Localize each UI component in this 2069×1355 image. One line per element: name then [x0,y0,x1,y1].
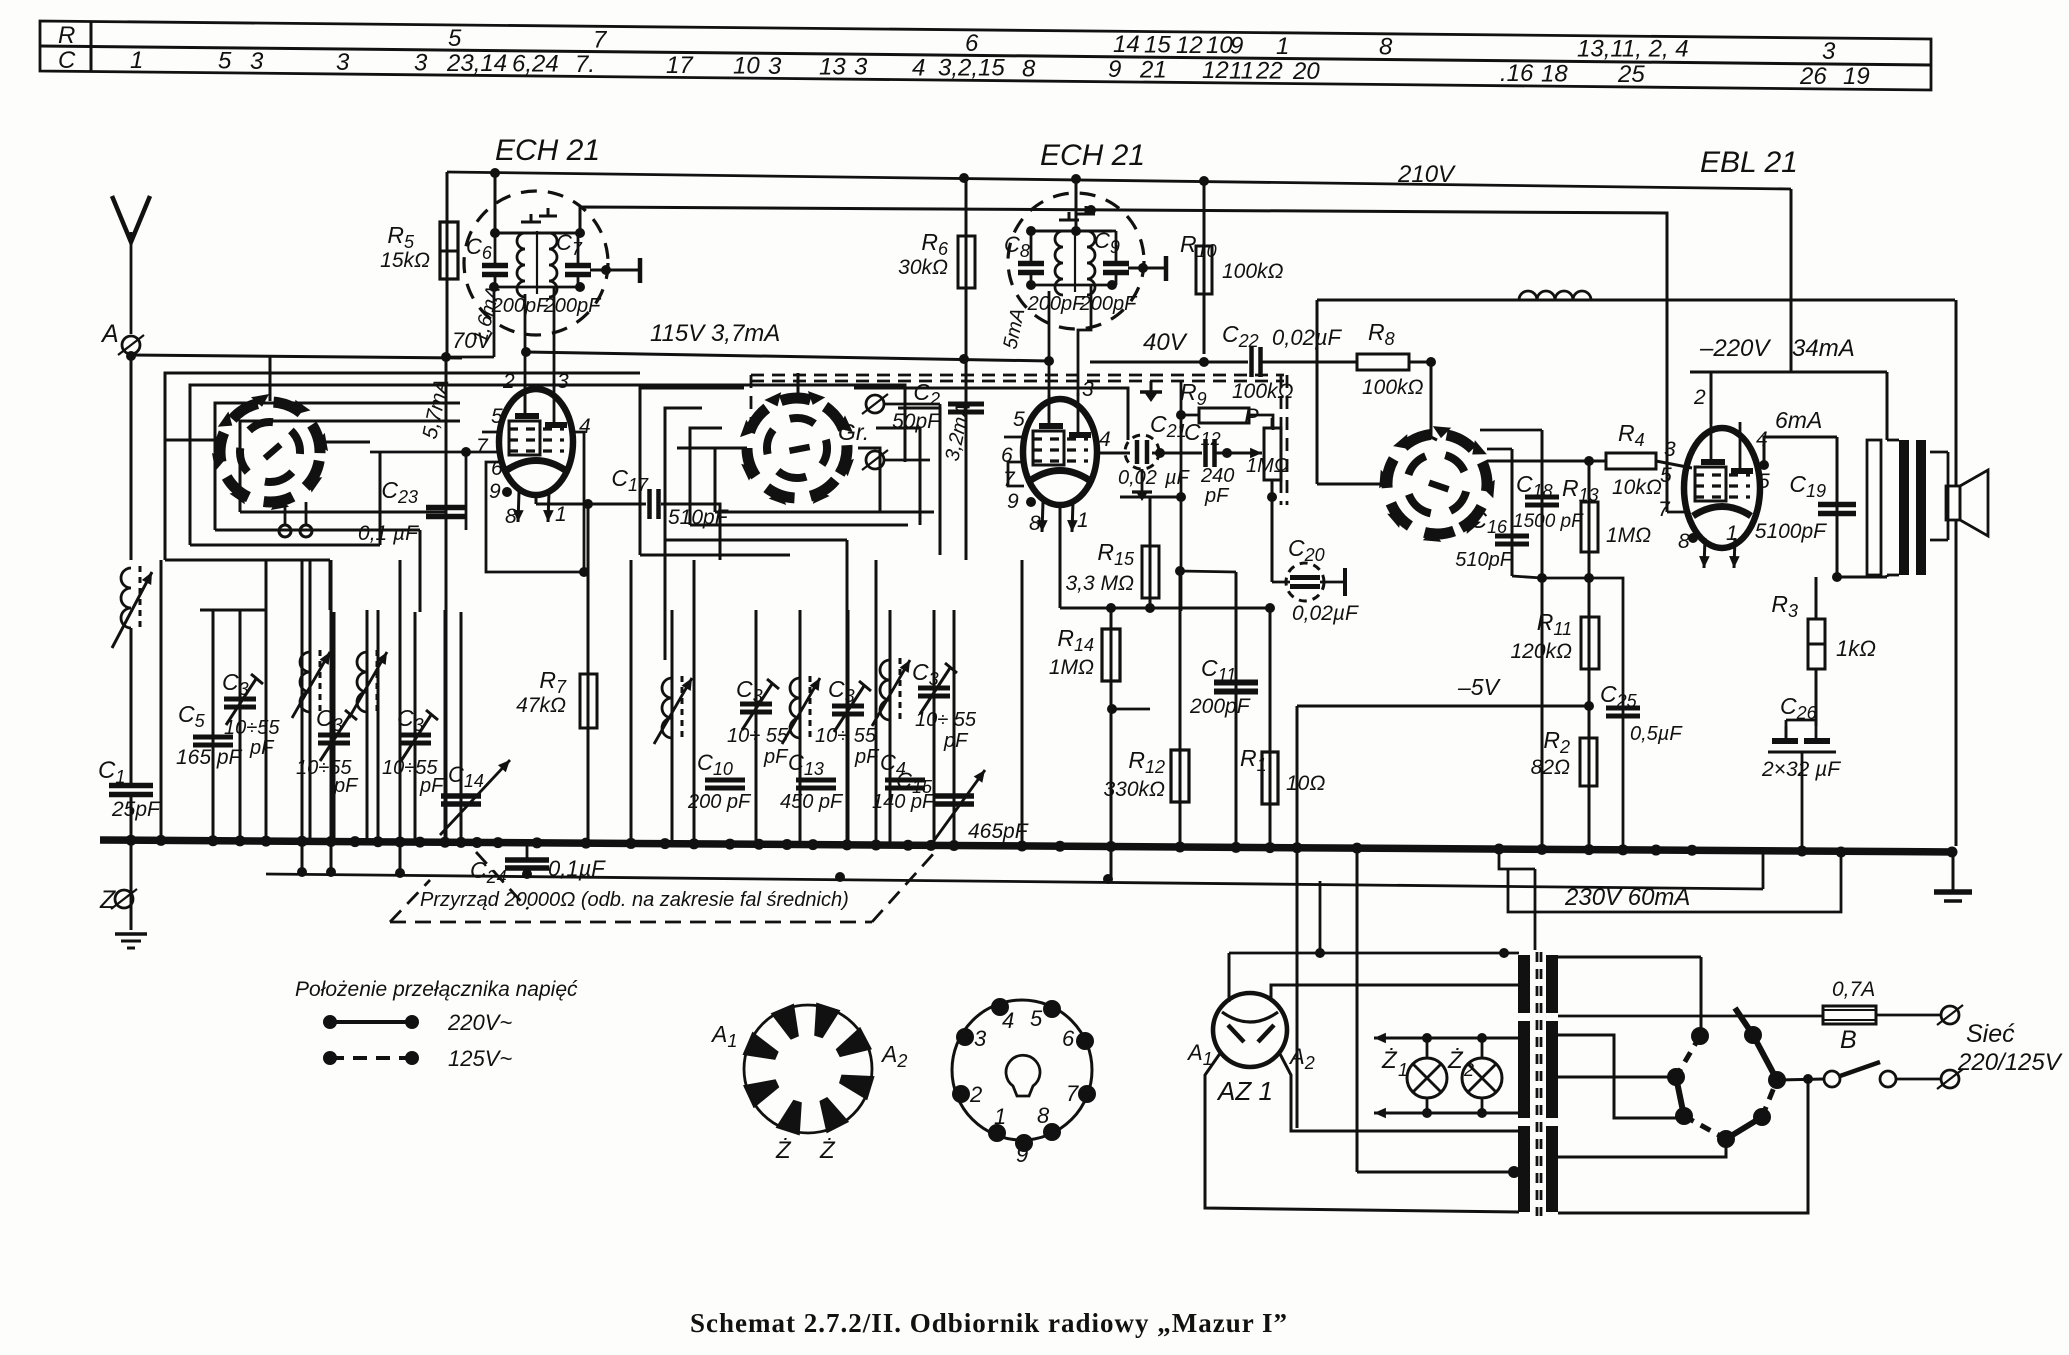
svg-text:1: 1 [1276,33,1289,60]
label R5 value [380,249,430,272]
return line below bus [266,853,1763,889]
capacitor C11 [1214,683,1258,692]
wire 230V [1499,847,1847,951]
AZ1 right lead [1279,1052,1519,1131]
label C10 [687,750,752,813]
table C-row entry 17 [666,52,694,79]
socket key [1006,1055,1040,1096]
svg-text:2: 2 [1693,386,1706,409]
label C26 value [1761,758,1841,781]
label C6 [466,234,493,263]
label C3 e value [815,725,880,768]
svg-text:7: 7 [1003,468,1016,491]
svg-text:6mA: 6mA [1775,407,1822,433]
wire R7 vertical [587,674,590,843]
selector link dashed b [1684,1116,1726,1139]
wire switch1 drop b [379,452,382,545]
table R-row entry 7 [593,26,608,53]
svg-text:125V~: 125V~ [448,1046,512,1071]
variable capacitor C14 [440,612,510,843]
table C-row entry 22 [1255,58,1283,85]
svg-text:510pF: 510pF [1455,549,1513,571]
svg-text:0,02µF: 0,02µF [1292,602,1359,625]
label 230V 60mA [1564,884,1690,911]
label R4 [1618,420,1645,450]
choke coil [1519,291,1591,300]
label C3 d value [727,725,789,768]
label C19 value [1755,520,1827,543]
selector feed 3 [1558,1076,1676,1079]
svg-text:P: P [1244,404,1259,429]
svg-text:1: 1 [555,503,567,526]
wire IF2 to grid [1078,285,1091,396]
wire C2 vertical [965,362,968,560]
svg-text:1: 1 [1726,522,1738,545]
antenna coil L1 [112,566,152,648]
svg-text:1kΩ: 1kΩ [1836,636,1876,661]
label A2 AZ1 [1288,1044,1315,1073]
label Z2 [1447,1047,1474,1080]
svg-text:200 pF: 200 pF [687,791,752,813]
terminal Gr bottom [862,450,930,470]
table R-row entry 12 [1176,32,1203,59]
label C3 c [397,705,424,735]
label C1 [98,757,125,787]
label -5V [1457,674,1502,700]
label B [1840,1026,1857,1054]
wire R15 vertical [1149,497,1152,608]
svg-text:220V~: 220V~ [447,1010,512,1035]
capacitor C13 [796,780,836,788]
return line dots [297,867,1113,884]
label C5 [178,701,206,731]
label C12 value [1200,465,1234,507]
band switch S1a contacts [279,502,312,537]
label R8 value [1362,376,1424,399]
wire C19 vertical [1836,437,1839,577]
svg-text:10÷ 55: 10÷ 55 [727,725,789,747]
svg-text:C: C [58,47,76,74]
wire C25 branch [1589,578,1623,845]
svg-text:10: 10 [733,53,760,80]
tube ECH21 #1 [499,383,573,522]
svg-text:8: 8 [1379,34,1393,61]
svg-text:ECH 21: ECH 21 [1040,139,1145,172]
svg-text:120kΩ: 120kΩ [1510,640,1572,663]
label C3 c value [382,757,445,797]
svg-text:pF: pF [1204,485,1230,507]
table C-row entry 3 [336,49,350,76]
wire IF2 bottom left [1044,291,1054,420]
svg-text:4: 4 [912,54,925,81]
IF1 output lead [590,258,640,283]
selector link solid c [1735,1008,1777,1080]
wire switch1 drop c [419,530,422,612]
label R11 value [1510,640,1572,663]
svg-text:10kΩ: 10kΩ [1612,476,1662,499]
osc wiring loop outer [640,388,1128,555]
wire IF1 bottom left [446,287,525,416]
table C-row entry 7. [575,51,595,78]
svg-text:6,24: 6,24 [512,50,559,77]
table C-row entry 26 [1799,63,1827,90]
wire R10 vertical [1203,181,1206,354]
svg-text:Z: Z [99,886,116,914]
table C-row entry 3 [768,53,782,80]
selector feed 2 [1558,1035,1682,1118]
label C11 [1201,655,1236,685]
table row label R [58,22,75,49]
terminal siec bottom [1937,1069,1963,1089]
rail 115V dots [521,347,969,364]
label C8 value [1027,293,1086,315]
svg-text:Położenie przełącznika napięć: Położenie przełącznika napięć [295,978,578,1001]
annotation underline [390,852,935,922]
svg-text:pF: pF [854,746,880,768]
trimmer C3 b [318,612,357,843]
table R-row entry 15 [1144,32,1171,59]
label C3 f value [915,709,977,752]
tube2 pin labels [1001,378,1111,535]
svg-text:A: A [100,320,119,348]
svg-text:µF: µF [1164,467,1191,489]
svg-text:AZ 1: AZ 1 [1216,1076,1273,1106]
svg-text:3: 3 [1822,38,1836,65]
capacitor C10 [705,780,745,788]
svg-text:100kΩ: 100kΩ [1362,376,1424,399]
table C-row entry .16 [1500,60,1534,87]
osc coil L6 [872,610,910,843]
svg-text:1: 1 [1398,1060,1408,1080]
svg-text:6: 6 [1062,1026,1075,1051]
svg-text:7: 7 [476,435,489,458]
wire tube1 cathode down [536,496,593,674]
junction A node [126,351,136,361]
svg-text:25: 25 [1617,61,1645,88]
table C-row entry 11 [1229,57,1254,84]
wire R8 down to S1c [1430,362,1433,437]
antenna [112,196,150,334]
rail 210V left segment [447,172,1791,189]
label R2 [1543,727,1570,757]
wire R3 top [1816,572,1842,619]
label C17 value [668,506,729,529]
lamp arrows bottom [1374,1108,1519,1119]
svg-text:82Ω: 82Ω [1531,756,1570,779]
ground main [115,934,147,948]
capacitor C20 [1272,563,1345,601]
svg-text:Przyrząd 20000Ω (odb. na zakre: Przyrząd 20000Ω (odb. na zakresie fal śr… [420,889,849,911]
label R8 [1368,319,1395,349]
anode line [1690,372,1887,440]
svg-text:18: 18 [1541,60,1568,87]
svg-text:pF: pF [249,737,275,759]
output transformer [1867,440,1948,575]
svg-text:50pF: 50pF [892,410,941,433]
svg-text:pF: pF [333,775,359,797]
wire heater to transformer [1357,1166,1520,1178]
label fuse [1832,978,1875,1001]
label socket Z a [775,1137,792,1164]
table C-row entry 18 [1541,60,1568,87]
svg-text:200pF: 200pF [1079,293,1138,315]
EBL21 pin4 lead [1759,437,1837,470]
label R10 [1180,231,1217,261]
wire R4 to tube [1656,461,1692,468]
svg-text:3,2,15: 3,2,15 [938,55,1005,82]
rail -5V [1297,705,1589,708]
table R-row entry 10 [1206,32,1233,59]
label C23 [381,477,418,507]
svg-text:7: 7 [593,26,608,53]
band switch S1b [717,368,878,529]
wire v665 [664,540,667,660]
label C15 value [968,820,1029,843]
terminal siec top [1937,1005,1963,1025]
svg-text:1: 1 [1077,509,1089,532]
resistor R9 [1199,408,1249,423]
table R-row entry 6 [965,30,979,57]
label R3 [1771,591,1798,621]
svg-text:30kΩ: 30kΩ [898,256,948,279]
label C2 [913,379,940,409]
label C2 value [892,410,941,433]
junction -5V [1584,701,1594,711]
svg-text:20: 20 [1292,58,1320,85]
svg-text:200pF: 200pF [1189,695,1251,718]
wire R15 top [1120,492,1186,502]
svg-text:pF: pF [943,730,969,752]
label R6 value [898,256,948,279]
label R2 value [1531,756,1570,779]
label R13 [1562,475,1599,505]
resistor R11 [1581,617,1599,669]
svg-text:R: R [58,22,75,49]
svg-text:165 pF: 165 pF [176,746,243,769]
resistor R6 [958,236,975,288]
label ECH 21 second [1040,139,1145,172]
svg-text:0,02µF: 0,02µF [1272,325,1342,350]
table C-row entry 3 [414,50,428,77]
selector link solid b [1726,1117,1762,1139]
band switch wiring loop inner [215,403,460,530]
table C-row entry 10 [733,53,760,80]
label socket A1 [710,1021,737,1051]
label C4 [872,750,936,813]
wire v331 [330,560,333,872]
capacitor C21 [1125,435,1159,469]
capacitor C25 [1606,708,1640,716]
table C-row entry 8 [1022,55,1036,82]
label 70V [452,328,493,353]
table C-row entry 21 [1139,56,1167,83]
wire right rail to ground [1952,850,1955,892]
EBL21 pin7 lead [1667,511,1686,514]
table C-row entry 6,24 [512,50,559,77]
table C-row entry 12 [1202,57,1229,84]
svg-text:34mA: 34mA [1792,335,1855,362]
tube EBL21 [1684,422,1760,568]
svg-text:0,1 µF: 0,1 µF [358,522,419,545]
S1c right lead [1487,456,1594,466]
wire 210V drop [1790,189,1793,372]
label C22 [1222,321,1342,351]
svg-text:pF: pF [763,746,789,768]
label C7 value [543,295,602,317]
tube2 pin5 lead [1004,436,1024,439]
wire R9 right [1249,415,1273,430]
wire switch1 drop a [329,560,332,610]
shield box left stub [750,375,753,420]
svg-text:5: 5 [1013,408,1025,431]
label C3 b value [296,757,359,797]
svg-text:5: 5 [491,405,503,428]
table C-row entry 3 [854,54,868,81]
svg-text:40V: 40V [1143,329,1188,356]
svg-text:EBL 21: EBL 21 [1700,146,1798,179]
wire C17 line [588,503,646,506]
svg-text:9: 9 [1016,1142,1028,1167]
table R-row entry 5 [448,25,462,52]
lamp arrows top [1374,1033,1519,1044]
tube1 grid box [486,432,589,577]
svg-text:6: 6 [965,30,979,57]
svg-text:21: 21 [1139,56,1167,83]
trimmer C3 c [399,612,438,843]
svg-text:15: 15 [1144,32,1171,59]
svg-text:200pF: 200pF [1027,293,1086,315]
terminal Z [111,889,137,909]
svg-text:2: 2 [969,1082,982,1107]
wire v694 [693,560,696,843]
power transformer [1518,952,1558,1216]
wire C19 bottom [1837,575,1887,577]
svg-text:12: 12 [1176,32,1203,59]
band switch wiring loop outer [165,373,640,560]
resistor R7 [580,674,597,728]
label C26 [1780,693,1818,723]
wire C17 right [661,504,720,560]
svg-text:Ż: Ż [819,1137,836,1164]
wire v1022 [1021,560,1024,843]
capacitor C2 [948,404,984,412]
label C25 [1600,681,1638,711]
wire R8 right [1409,357,1436,367]
label siec [1966,1020,2015,1048]
terminal A [118,335,144,355]
label P [1244,404,1259,429]
svg-text:17: 17 [666,52,694,79]
label 1,6mA [470,284,505,345]
osc wiring loop mid [665,408,940,555]
label C19 [1789,471,1826,501]
label R9 [1180,379,1294,409]
wire C18 line [1480,430,1542,845]
label R15 value [1066,572,1135,595]
svg-text:15kΩ: 15kΩ [380,249,430,272]
label R1 value [1286,772,1325,795]
wire v302 [301,560,304,872]
selector feed bottom [1558,1079,1808,1213]
tube2 grid box [1008,462,1024,486]
table C-row entry 5 [218,48,232,75]
IF transformer 2 (C8 C9) [1008,179,1144,329]
bus junction dots [126,835,1958,858]
rail 115V [526,352,1049,361]
wire antenna down [130,355,133,560]
label 210V [1397,161,1456,188]
svg-text:3: 3 [250,48,264,75]
band switch wiring loop mid [190,385,905,545]
capacitor C17 [650,489,659,519]
svg-text:3: 3 [768,53,782,80]
svg-text:14: 14 [1113,31,1140,58]
wire R12 vertical [1179,571,1182,845]
svg-text:5100pF: 5100pF [1755,520,1827,543]
label 34mA [1792,335,1855,362]
tube1 pin5 lead [482,431,500,434]
IF transformer 1 (C6 C7) [464,177,608,335]
wire L1 to C1 [130,628,133,786]
svg-text:ECH 21: ECH 21 [495,134,600,167]
annotation przyrzad [420,889,849,911]
svg-text:5: 5 [448,25,462,52]
label C16 value [1455,549,1513,571]
choke line [1317,300,1955,484]
label C15 [896,768,933,797]
svg-text:4: 4 [1002,1008,1014,1033]
label R7 value [516,694,566,717]
svg-text:Ż: Ż [775,1137,792,1164]
lamp Z2 [1462,1038,1502,1113]
label R1 [1240,745,1267,775]
label A [100,320,119,348]
label R14 [1057,625,1094,655]
label R3 value [1836,636,1876,661]
label 115V 3,7mA [650,320,780,347]
wire C5 line [200,610,266,843]
label Gr [838,419,869,445]
label C12 [1184,419,1221,449]
svg-text:5: 5 [1758,470,1770,493]
wire selector to fuse [1558,1015,1823,1018]
table R-row entry 3 [1822,38,1836,65]
S1c top lead [1431,437,1437,440]
tuning coil L3 [349,610,387,843]
label R6 [921,229,949,259]
osc wiring loop inner [690,428,920,525]
svg-text:3: 3 [414,50,428,77]
label C3 d [736,676,763,706]
wire v876 [875,560,878,843]
svg-text:3: 3 [854,54,868,81]
label C14 [448,762,484,791]
power switch [1824,1062,1940,1087]
table C-row entry 25 [1617,61,1645,88]
table C-row entry 19 [1843,63,1870,90]
svg-text:Ż: Ż [1447,1047,1464,1074]
label C23 value [358,522,419,545]
selector feed top [1558,957,1701,1036]
table C-row entry 4 [912,54,925,81]
label C3 b [316,705,343,735]
table C-row entry 9 [1108,56,1121,83]
wire R6 vertical [965,178,968,362]
table C-row entry 20 [1292,58,1320,85]
svg-text:1: 1 [994,1104,1006,1129]
label R12 value [1103,778,1165,801]
AZ1 left lead [1205,1052,1519,1212]
